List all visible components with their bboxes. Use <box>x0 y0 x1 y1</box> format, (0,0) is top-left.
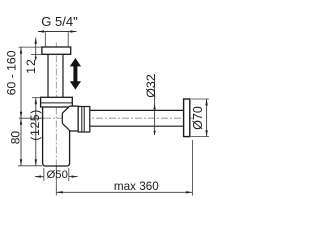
vertical centerline of inlet tube <box>55 43 57 167</box>
Ø70 bottom extension line <box>191 136 209 138</box>
svg-text:Ø32: Ø32 <box>144 74 158 98</box>
cup body <box>43 107 70 166</box>
extension line from cup bottom center down to max360 dimension line <box>55 166 57 196</box>
dimension Ø32 leader line with outward arrows <box>154 74 156 135</box>
svg-text:Ø70: Ø70 <box>191 106 205 130</box>
inlet tube left wall <box>47 54 49 97</box>
G 5/4 extension line right <box>67 32 69 47</box>
elbow outlet piece <box>62 106 78 131</box>
Ø50 right extension line <box>68 168 70 181</box>
cup bottom extension line <box>18 165 42 167</box>
svg-text:60 - 160: 60 - 160 <box>5 50 19 95</box>
adjustability double arrow <box>70 58 81 90</box>
svg-text:80: 80 <box>9 131 23 145</box>
collar nut inner line <box>41 102 73 104</box>
wall flange rosette Ø70 <box>184 99 190 137</box>
G 5/4 dimension line with outward arrows <box>38 31 76 33</box>
top nut flange G5/4 <box>42 47 71 54</box>
inlet tube right wall <box>62 54 64 97</box>
horizontal extension line at outlet centerline level (left) <box>19 117 44 119</box>
outlet nut inner ridge 2 <box>83 107 85 133</box>
dimension 60-160 line <box>20 47 22 118</box>
svg-text:12: 12 <box>24 58 38 73</box>
outlet nut inner ridge <box>81 107 83 133</box>
collar nut at cup top <box>41 97 73 107</box>
Ø50 left extension line <box>43 168 45 181</box>
flange bottom extension line <box>31 53 42 55</box>
svg-text:max 360: max 360 <box>114 180 159 193</box>
outlet pipe bottom wall <box>90 125 184 127</box>
outlet pipe top wall <box>90 109 184 111</box>
dimension max 360 line <box>56 191 192 193</box>
flange top extension line <box>19 46 42 48</box>
outlet compression nut <box>78 107 90 133</box>
G 5/4 extension line left <box>44 32 46 47</box>
horizontal centerline of outlet pipe <box>44 117 193 119</box>
dimension 80 line <box>20 118 22 166</box>
dimension Ø50 line right part with outward arrow <box>69 176 78 178</box>
collar top extension line <box>32 97 41 99</box>
dimension Ø50 line left part with outward arrow <box>35 176 44 178</box>
svg-text:G 5/4": G 5/4" <box>41 14 78 29</box>
max360 right extension line <box>191 140 193 196</box>
svg-text:(125): (125) <box>28 109 42 141</box>
Ø70 top extension line <box>191 98 209 100</box>
dimension (125) line <box>35 98 37 166</box>
svg-text:Ø50: Ø50 <box>47 169 68 181</box>
dimension 12 line with outward arrows <box>35 38 37 61</box>
dimension Ø70 line <box>206 99 208 137</box>
